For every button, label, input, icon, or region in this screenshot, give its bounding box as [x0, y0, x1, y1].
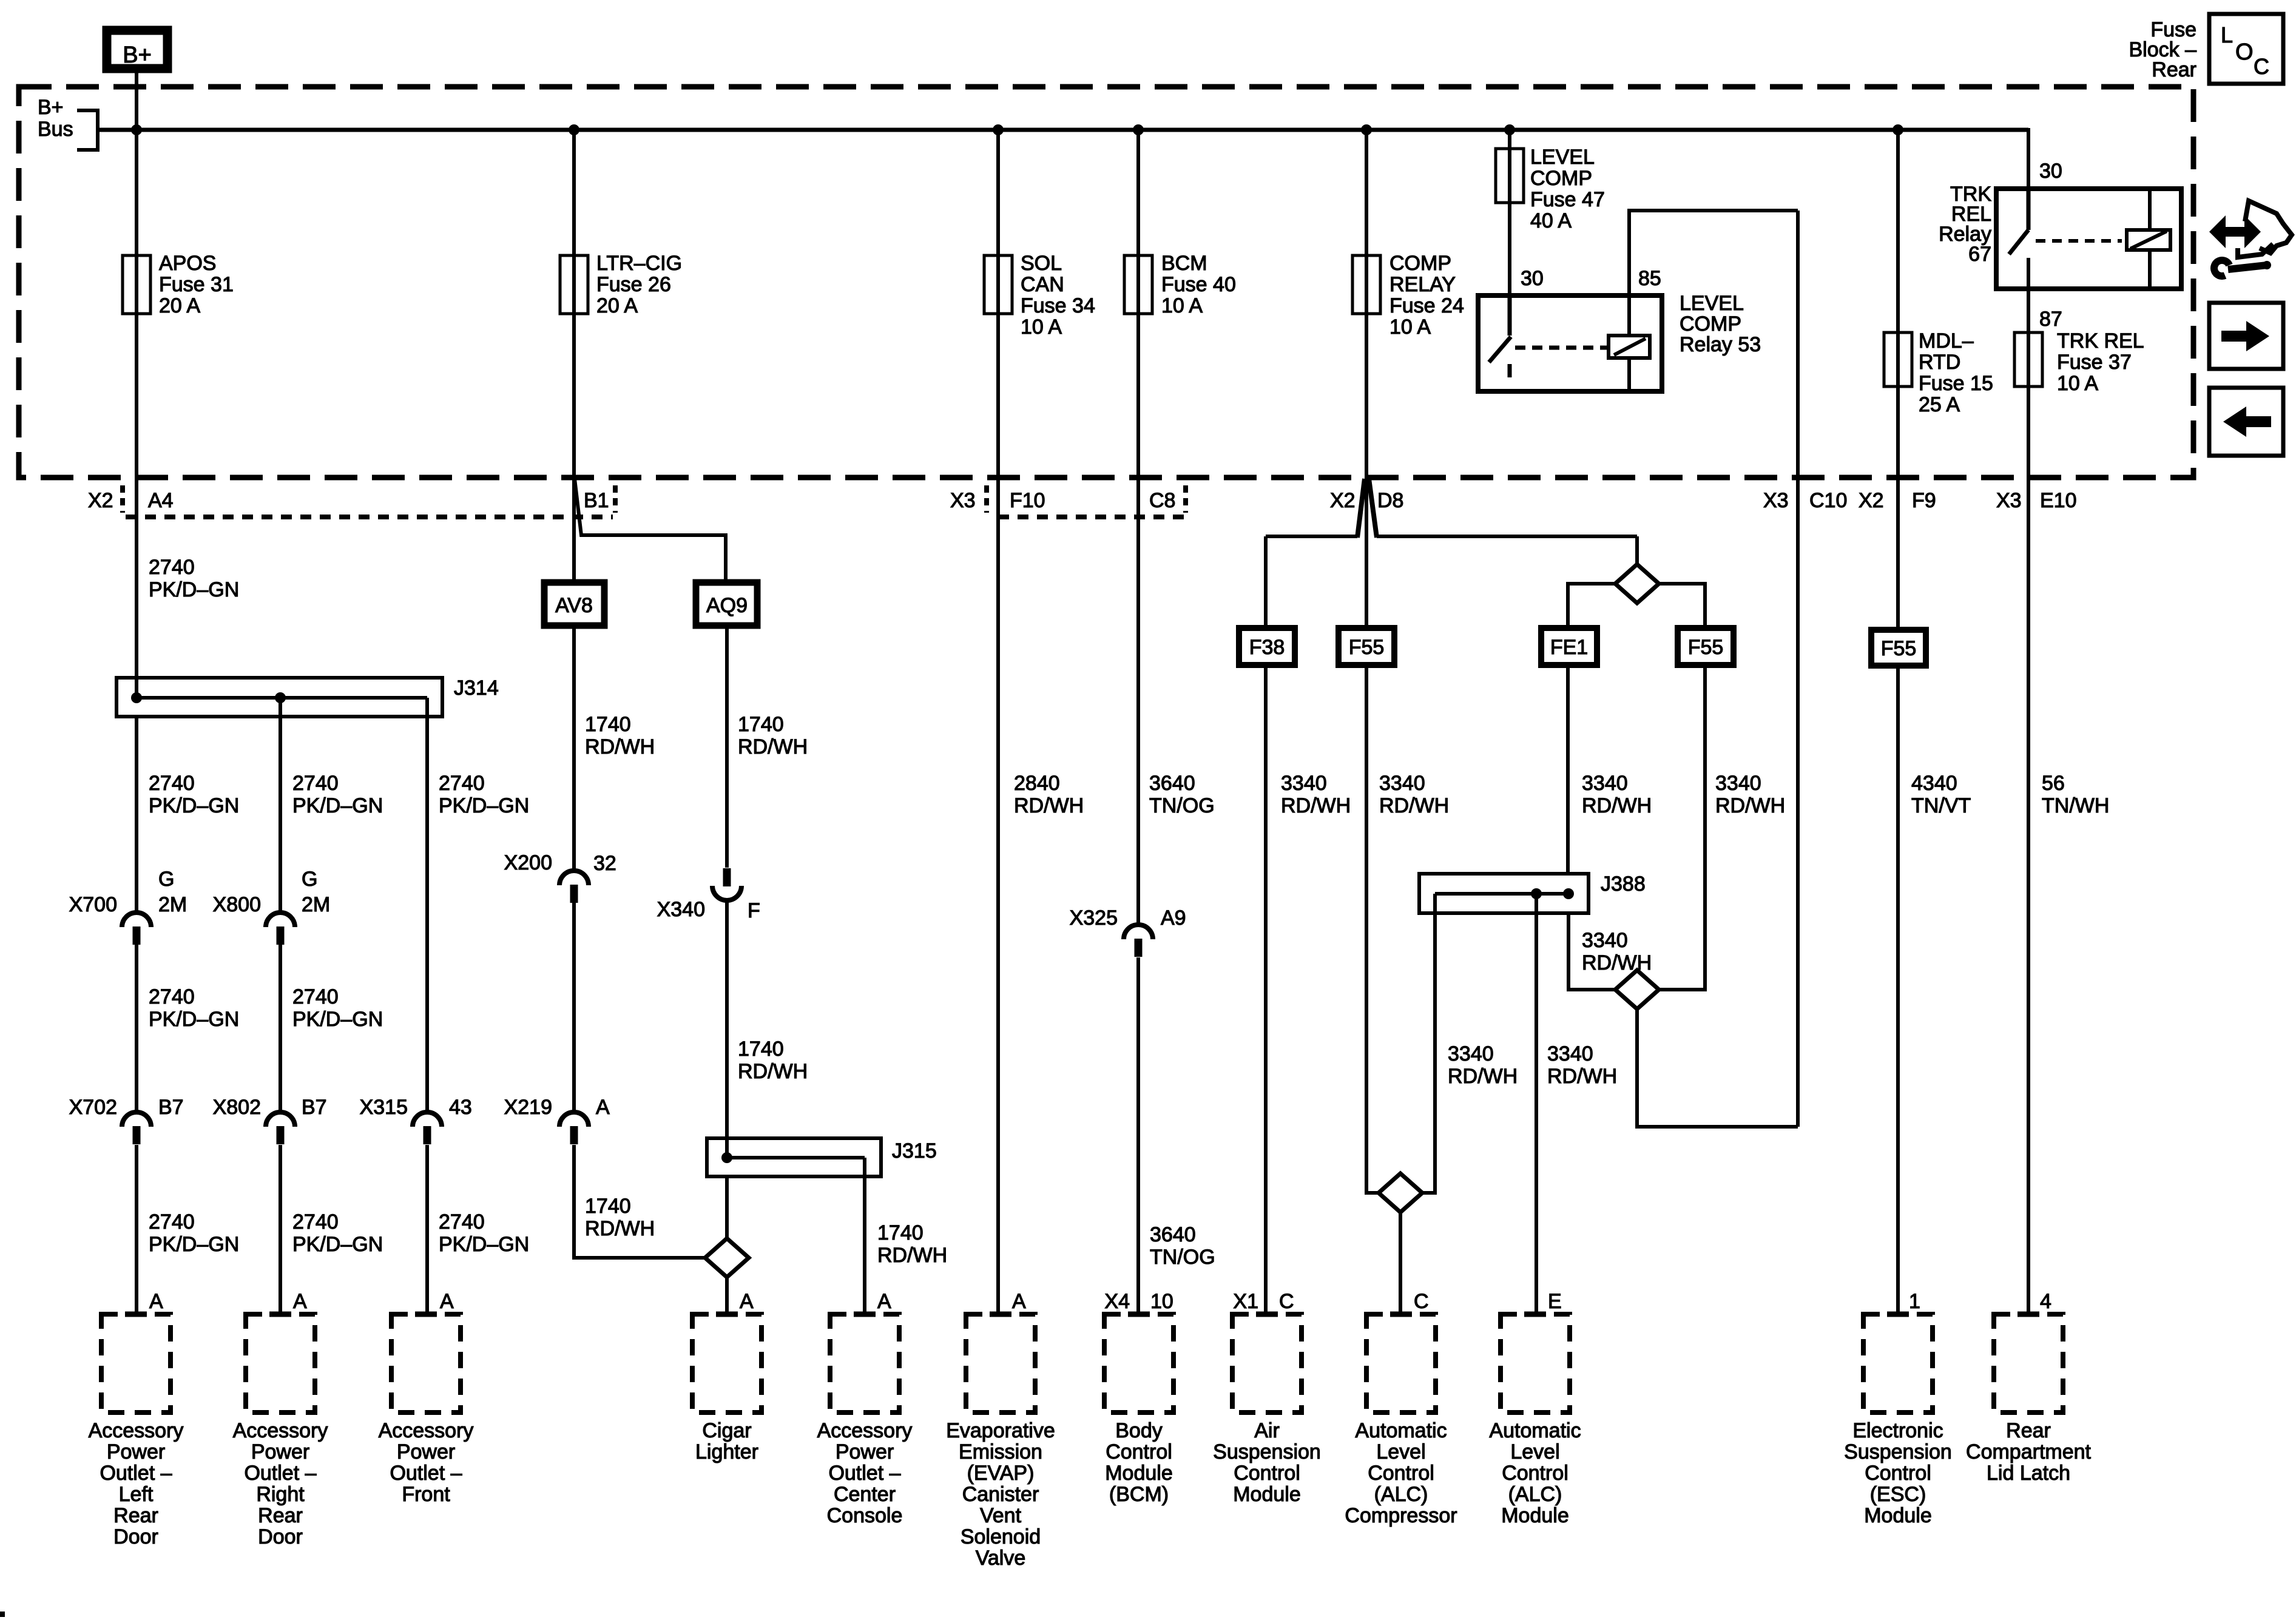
connector X800 in-line: [266, 913, 295, 927]
svg-text:Rear: Rear: [2152, 58, 2196, 81]
svg-text:20 A: 20 A: [596, 294, 638, 317]
svg-text:MDL–: MDL–: [1919, 329, 1974, 353]
svg-text:Outlet –: Outlet –: [390, 1462, 462, 1485]
svg-text:25 A: 25 A: [1919, 393, 1960, 416]
svg-text:2740: 2740: [292, 1210, 339, 1234]
module Body Control Module: [1104, 1314, 1173, 1412]
svg-text:10 A: 10 A: [1161, 294, 1203, 317]
relay 53 coil: [1609, 336, 1650, 358]
B+ Bus bracket symbol: [77, 110, 98, 150]
svg-text:X702: X702: [69, 1096, 117, 1119]
splice pack J314: [116, 678, 442, 717]
svg-text:Automatic: Automatic: [1355, 1419, 1447, 1442]
splice pack J315: [707, 1138, 881, 1176]
svg-text:B7: B7: [158, 1096, 184, 1119]
svg-text:F55: F55: [1688, 636, 1724, 659]
svg-text:Fuse 31: Fuse 31: [159, 273, 234, 296]
wire J388 left tap to compressor diamond: [1422, 894, 1435, 1193]
svg-text:X340: X340: [657, 898, 705, 921]
svg-text:Level: Level: [1510, 1440, 1559, 1463]
svg-text:Door: Door: [258, 1525, 303, 1548]
svg-text:F55: F55: [1349, 636, 1385, 659]
svg-text:TN/VT: TN/VT: [1911, 794, 1971, 817]
svg-text:Accessory: Accessory: [89, 1419, 184, 1442]
svg-text:X1: X1: [1233, 1290, 1258, 1313]
wire J314 mid tap: [279, 698, 282, 913]
svg-text:87: 87: [2039, 308, 2062, 331]
svg-text:PK/D–GN: PK/D–GN: [149, 1008, 239, 1031]
terminal F55 left: [1339, 628, 1394, 665]
svg-text:3340: 3340: [1281, 772, 1327, 795]
svg-text:X3: X3: [950, 489, 976, 512]
svg-text:X200: X200: [504, 851, 552, 874]
wire X800 to X802: [279, 945, 282, 1113]
svg-text:10: 10: [1150, 1290, 1173, 1313]
splice diamond cigar lighter: [705, 1238, 749, 1277]
wire J315 to cigar diamond: [725, 1176, 729, 1238]
wire bus to LEVEL COMP fuse: [1508, 130, 1511, 203]
svg-text:Fuse 40: Fuse 40: [1161, 273, 1236, 296]
connector X325 in-line: [1124, 925, 1153, 939]
svg-text:LEVEL: LEVEL: [1530, 146, 1595, 169]
svg-text:FE1: FE1: [1550, 636, 1588, 659]
svg-text:Compartment: Compartment: [1966, 1440, 2092, 1463]
svg-text:X219: X219: [504, 1096, 552, 1119]
wire X219 to cigar diamond: [574, 1145, 705, 1258]
splice diamond upper: [1615, 564, 1659, 603]
svg-text:(ALC): (ALC): [1508, 1483, 1562, 1506]
separator X3/F10: [984, 485, 989, 513]
wire compressor diamond to ALC compressor: [1399, 1212, 1402, 1314]
svg-text:1740: 1740: [585, 713, 631, 736]
svg-text:X315: X315: [360, 1096, 408, 1119]
svg-text:Level: Level: [1376, 1440, 1425, 1463]
relay TRK REL Relay 67 box: [1996, 189, 2181, 289]
relay 67 switch: [2027, 191, 2031, 230]
relay 53 coil link dashes: [1515, 346, 1609, 350]
terminal F55 (ESC): [1871, 630, 1926, 666]
wire X315 to front outlet: [425, 1145, 429, 1314]
svg-text:PK/D–GN: PK/D–GN: [149, 578, 239, 601]
svg-text:RD/WH: RD/WH: [585, 735, 655, 758]
svg-text:43: 43: [449, 1096, 472, 1119]
svg-text:RD/WH: RD/WH: [1715, 794, 1785, 817]
svg-text:C10: C10: [1809, 489, 1847, 512]
wire AV8 to X200: [572, 626, 576, 871]
svg-text:Accessory: Accessory: [233, 1419, 328, 1442]
svg-text:A: A: [740, 1290, 754, 1313]
svg-text:Air: Air: [1254, 1419, 1280, 1442]
wire C10 long drop: [1796, 211, 1800, 1127]
svg-text:2740: 2740: [439, 772, 485, 795]
svg-text:Right: Right: [256, 1483, 305, 1506]
svg-text:Control: Control: [1106, 1440, 1172, 1463]
splice diamond lower: [1615, 970, 1659, 1009]
svg-text:RELAY: RELAY: [1389, 273, 1456, 296]
wire X702 to left rear outlet: [135, 1145, 138, 1314]
svg-text:1: 1: [1909, 1290, 1920, 1313]
svg-text:RD/WH: RD/WH: [1379, 794, 1449, 817]
svg-text:A: A: [440, 1290, 454, 1313]
svg-text:Module: Module: [1501, 1504, 1569, 1527]
svg-text:RD/WH: RD/WH: [1448, 1065, 1518, 1088]
junction bus/SOL CAN: [993, 124, 1004, 135]
svg-text:Suspension: Suspension: [1844, 1440, 1952, 1463]
junction bus/COMP RELAY: [1361, 124, 1372, 135]
svg-text:56: 56: [2042, 772, 2065, 795]
svg-text:Relay 53: Relay 53: [1680, 333, 1761, 356]
svg-text:85: 85: [1638, 267, 1661, 290]
svg-text:J315: J315: [892, 1139, 937, 1163]
svg-text:1740: 1740: [877, 1221, 923, 1244]
terminal F38: [1239, 628, 1295, 665]
svg-text:CAN: CAN: [1021, 273, 1064, 296]
svg-text:J388: J388: [1601, 872, 1646, 896]
splice wedge D8: [1357, 479, 1365, 538]
svg-text:(BCM): (BCM): [1109, 1483, 1169, 1506]
wire relay 53 pin 85 up and right: [1629, 211, 1798, 295]
wire bus to MDL-RTD fuse: [1896, 130, 1900, 387]
svg-text:C: C: [2254, 54, 2269, 79]
svg-text:A: A: [293, 1290, 307, 1313]
svg-text:C8: C8: [1149, 489, 1175, 512]
svg-text:Evaporative: Evaporative: [946, 1419, 1055, 1442]
svg-text:Fuse 34: Fuse 34: [1021, 294, 1095, 317]
svg-text:A: A: [596, 1096, 610, 1119]
svg-text:(ALC): (ALC): [1374, 1483, 1428, 1506]
svg-text:RD/WH: RD/WH: [585, 1217, 655, 1240]
separator B1: [613, 485, 618, 513]
connector X700 in-line: [122, 913, 151, 927]
wire MDL-RTD fuse to F55: [1896, 386, 1900, 630]
svg-text:Console: Console: [827, 1504, 903, 1527]
icon arrow right box: [2209, 303, 2283, 369]
wire bus to APOS fuse: [135, 130, 138, 314]
svg-text:Power: Power: [251, 1440, 309, 1463]
module ALC Module: [1501, 1314, 1570, 1412]
svg-text:Vent: Vent: [980, 1504, 1022, 1527]
svg-text:32: 32: [593, 852, 616, 875]
wire X325 to BCM module: [1136, 957, 1140, 1314]
module Accessory Power Outlet - Right Rear Door: [246, 1314, 315, 1412]
wire right branch to diamond1: [1635, 536, 1639, 564]
svg-text:RD/WH: RD/WH: [738, 735, 808, 758]
svg-text:PK/D–GN: PK/D–GN: [149, 1233, 239, 1256]
svg-text:O: O: [2235, 39, 2254, 65]
svg-text:Outlet –: Outlet –: [244, 1462, 316, 1485]
module Rear Compartment Lid Latch: [1994, 1314, 2063, 1412]
svg-text:Rear: Rear: [2006, 1419, 2051, 1442]
svg-text:Door: Door: [113, 1525, 158, 1548]
svg-text:RTD: RTD: [1919, 351, 1960, 374]
svg-text:1740: 1740: [585, 1195, 631, 1218]
relay 53 switch: [1508, 298, 1512, 336]
svg-text:AV8: AV8: [555, 594, 593, 617]
B+ battery feed terminal: [107, 30, 167, 69]
wire B+ bus: [98, 128, 2028, 132]
wire J315 tap to Center Console outlet: [863, 1158, 866, 1314]
svg-text:67: 67: [1968, 243, 1991, 266]
svg-text:J314: J314: [454, 677, 499, 700]
svg-text:2M: 2M: [302, 893, 330, 916]
wire diamond to Cigar Lighter: [725, 1277, 729, 1314]
wire X802 to right rear outlet: [279, 1145, 282, 1314]
wire fuse 37 to lid latch: [2027, 386, 2030, 1314]
svg-text:TN/WH: TN/WH: [2042, 794, 2109, 817]
svg-text:X2: X2: [1859, 489, 1884, 512]
svg-text:2740: 2740: [439, 1210, 485, 1234]
svg-text:COMP: COMP: [1680, 312, 1741, 336]
module ALC Compressor: [1366, 1314, 1436, 1412]
module Accessory Power Outlet - Left Rear Door: [101, 1314, 171, 1412]
svg-text:(EVAP): (EVAP): [967, 1462, 1035, 1485]
relay 67 coil link dashes: [2036, 239, 2122, 243]
svg-text:4340: 4340: [1911, 772, 1957, 795]
svg-text:F55: F55: [1881, 637, 1917, 660]
svg-text:10 A: 10 A: [2057, 372, 2098, 395]
wire X700 to X702: [135, 945, 138, 1113]
svg-text:B+: B+: [123, 42, 152, 68]
svg-text:LEVEL: LEVEL: [1680, 292, 1744, 315]
icon service wrench arrows: [2209, 215, 2261, 248]
svg-text:X2: X2: [1330, 489, 1356, 512]
svg-text:PK/D–GN: PK/D–GN: [292, 1233, 383, 1256]
svg-text:30: 30: [2039, 160, 2062, 183]
fuse LTR-CIG Fuse 26: [560, 255, 588, 314]
svg-text:F: F: [748, 899, 760, 922]
svg-text:10 A: 10 A: [1021, 316, 1062, 339]
svg-text:Emission: Emission: [959, 1440, 1042, 1463]
svg-text:PK/D–GN: PK/D–GN: [439, 1233, 529, 1256]
wire SOL CAN fuse to EVAP valve: [996, 314, 1000, 1314]
svg-text:A4: A4: [148, 489, 174, 512]
connector X802 in-line: [266, 1112, 295, 1127]
junction J388 right: [1563, 888, 1574, 899]
svg-text:PK/D–GN: PK/D–GN: [149, 794, 239, 817]
svg-text:Center: Center: [834, 1483, 896, 1506]
svg-text:Power: Power: [836, 1440, 894, 1463]
wire F55 to ESC module: [1896, 666, 1900, 1314]
svg-text:20 A: 20 A: [159, 294, 200, 317]
wire LEVEL COMP fuse to relay 30: [1508, 203, 1511, 297]
wire bus corner down to TRK REL relay 30: [2027, 128, 2030, 191]
svg-text:1740: 1740: [738, 1038, 784, 1061]
fuse COMP RELAY Fuse 24: [1352, 255, 1380, 314]
connector X219 in-line: [559, 1112, 589, 1127]
connector X340 in-line: [712, 886, 741, 900]
svg-text:Left: Left: [119, 1483, 154, 1506]
wire F38 to Air Suspension module: [1264, 665, 1268, 1314]
svg-text:X802: X802: [213, 1096, 261, 1119]
svg-text:TN/OG: TN/OG: [1150, 1246, 1215, 1269]
module Accessory Power Outlet - Front: [391, 1314, 461, 1412]
svg-text:X2: X2: [88, 489, 113, 512]
svg-text:2740: 2740: [292, 772, 339, 795]
svg-text:3640: 3640: [1149, 772, 1195, 795]
svg-text:Accessory: Accessory: [379, 1419, 474, 1442]
svg-text:AQ9: AQ9: [706, 594, 748, 617]
wire bus to LTR-CIG fuse: [572, 130, 576, 314]
connector X315 in-line: [413, 1112, 442, 1127]
svg-text:Fuse 15: Fuse 15: [1919, 372, 1993, 395]
svg-text:2740: 2740: [149, 1210, 195, 1234]
junction bus/LTR-CIG: [569, 124, 579, 135]
svg-text:Lid Latch: Lid Latch: [1987, 1462, 2070, 1485]
module Air Suspension Control Module: [1232, 1314, 1302, 1412]
fuse TRK REL Fuse 37: [2014, 332, 2042, 386]
svg-text:Control: Control: [1865, 1462, 1931, 1485]
svg-text:Control: Control: [1502, 1462, 1568, 1485]
svg-text:2840: 2840: [1014, 772, 1060, 795]
relay LEVEL COMP Relay 53 box: [1478, 295, 1662, 391]
svg-text:RD/WH: RD/WH: [1547, 1065, 1617, 1088]
svg-text:3340: 3340: [1448, 1042, 1494, 1065]
svg-text:E10: E10: [2040, 489, 2077, 512]
svg-text:B1: B1: [584, 489, 609, 512]
fuse SOL CAN Fuse 34: [984, 255, 1012, 314]
svg-text:B7: B7: [302, 1096, 327, 1119]
svg-text:30: 30: [1521, 267, 1544, 290]
svg-text:3340: 3340: [1379, 772, 1425, 795]
svg-text:Rear: Rear: [113, 1504, 158, 1527]
wire left branch to F38: [1264, 536, 1268, 628]
svg-text:F10: F10: [1010, 489, 1045, 512]
terminal AV8: [544, 582, 604, 626]
svg-text:RD/WH: RD/WH: [1582, 794, 1652, 817]
wire diamond1 to F55 right: [1659, 584, 1705, 628]
svg-text:3340: 3340: [1547, 1042, 1593, 1065]
svg-text:3340: 3340: [1715, 772, 1761, 795]
svg-text:2740: 2740: [149, 772, 195, 795]
svg-text:PK/D–GN: PK/D–GN: [439, 794, 529, 817]
svg-text:Outlet –: Outlet –: [828, 1462, 900, 1485]
svg-text:Rear: Rear: [258, 1504, 303, 1527]
svg-text:A: A: [149, 1290, 163, 1313]
terminal AQ9: [696, 582, 757, 626]
wire branch B1 to AQ9: [575, 479, 726, 582]
svg-text:Electronic: Electronic: [1852, 1419, 1943, 1442]
wire J388 mid tap to ALC module: [1535, 894, 1538, 1314]
svg-text:Module: Module: [1105, 1462, 1173, 1485]
svg-text:Lighter: Lighter: [695, 1440, 758, 1463]
svg-text:Suspension: Suspension: [1213, 1440, 1321, 1463]
svg-text:Front: Front: [402, 1483, 450, 1506]
wire B+ to bus: [135, 73, 138, 130]
svg-text:10 A: 10 A: [1389, 316, 1431, 339]
svg-text:C: C: [1279, 1290, 1294, 1313]
svg-text:B+: B+: [38, 96, 64, 119]
relay 67 coil: [2127, 230, 2170, 250]
svg-text:X3: X3: [1996, 489, 2022, 512]
svg-text:APOS: APOS: [159, 252, 216, 275]
svg-text:SOL: SOL: [1021, 252, 1062, 275]
svg-text:LTR–CIG: LTR–CIG: [596, 252, 682, 275]
svg-text:X3: X3: [1763, 489, 1789, 512]
svg-text:RD/WH: RD/WH: [1582, 951, 1652, 974]
wire J388 down to diamond2: [1568, 913, 1615, 990]
wire diamond2 to C10 junction: [1637, 1009, 1798, 1127]
svg-text:X700: X700: [69, 893, 117, 916]
wire FE1 to J388: [1566, 665, 1570, 875]
svg-text:Power: Power: [107, 1440, 165, 1463]
svg-text:RD/WH: RD/WH: [877, 1244, 947, 1267]
svg-text:3340: 3340: [1582, 929, 1628, 952]
svg-text:Control: Control: [1368, 1462, 1434, 1485]
splice pack J388: [1419, 874, 1589, 913]
svg-text:RD/WH: RD/WH: [1014, 794, 1084, 817]
svg-text:Accessory: Accessory: [817, 1419, 913, 1442]
svg-text:Body: Body: [1115, 1419, 1163, 1442]
wire APOS fuse to J314: [135, 314, 138, 698]
secondary dashed line mid: [998, 515, 1186, 519]
terminal FE1: [1541, 628, 1597, 665]
svg-text:RD/WH: RD/WH: [738, 1060, 808, 1083]
svg-text:A9: A9: [1161, 906, 1186, 930]
svg-text:(ESC): (ESC): [1870, 1483, 1926, 1506]
svg-text:Fuse 26: Fuse 26: [596, 273, 671, 296]
junction bus/APOS: [131, 124, 142, 135]
secondary dashed line left: [126, 515, 613, 519]
svg-text:Solenoid: Solenoid: [961, 1525, 1041, 1548]
separator X2/A4: [120, 485, 125, 513]
page corner mark: [0, 1612, 5, 1617]
wire bus to COMP RELAY fuse: [1365, 130, 1368, 314]
svg-text:Compressor: Compressor: [1345, 1504, 1457, 1527]
fuse APOS Fuse 31: [123, 255, 150, 314]
wire J314 right tap: [425, 698, 429, 1113]
splice diamond compressor: [1379, 1173, 1422, 1212]
svg-text:COMP: COMP: [1530, 167, 1592, 190]
fuse LEVEL COMP Fuse 47: [1496, 149, 1524, 203]
svg-text:2740: 2740: [149, 985, 195, 1008]
svg-text:TRK REL: TRK REL: [2057, 329, 2144, 353]
svg-text:Valve: Valve: [976, 1547, 1026, 1570]
wire J314 left tap: [135, 717, 138, 913]
fuse BCM Fuse 40: [1124, 255, 1152, 314]
svg-text:Control: Control: [1234, 1462, 1300, 1485]
svg-text:Power: Power: [397, 1440, 455, 1463]
wire relay 67 pin 87 to fuse 37: [2027, 258, 2030, 387]
svg-text:X800: X800: [213, 893, 261, 916]
junction J388 mid: [1531, 888, 1542, 899]
svg-text:RD/WH: RD/WH: [1281, 794, 1351, 817]
junction bus/MDL-RTD: [1893, 124, 1903, 135]
module Accessory Power Outlet - Center Console: [830, 1314, 899, 1412]
connector X200 in-line: [559, 871, 589, 885]
icon arrow left box: [2209, 388, 2283, 456]
relay 67 coil wires: [2148, 191, 2152, 230]
svg-text:Cigar: Cigar: [702, 1419, 751, 1442]
svg-text:Fuse 47: Fuse 47: [1530, 188, 1605, 211]
junction bus/BCM: [1133, 124, 1144, 135]
connector X702 in-line: [122, 1112, 151, 1127]
svg-text:Outlet –: Outlet –: [100, 1462, 172, 1485]
junction J315 main: [721, 1152, 732, 1163]
svg-text:2740: 2740: [149, 556, 195, 579]
svg-text:COMP: COMP: [1389, 252, 1451, 275]
svg-text:1740: 1740: [738, 713, 784, 736]
wire D8 branch horizontal: [1266, 535, 1357, 538]
svg-text:2740: 2740: [292, 985, 339, 1008]
wire LTR-CIG fuse to AV8: [572, 314, 576, 582]
svg-text:3640: 3640: [1150, 1223, 1196, 1246]
LOC legend box: [2209, 14, 2283, 84]
wire bus to BCM fuse: [1136, 130, 1140, 314]
wire F55 right to diamond2: [1660, 665, 1705, 990]
wire X340 to J315: [725, 900, 729, 1159]
junction J314 mid: [275, 692, 286, 703]
wire X200 to X219: [572, 903, 576, 1113]
